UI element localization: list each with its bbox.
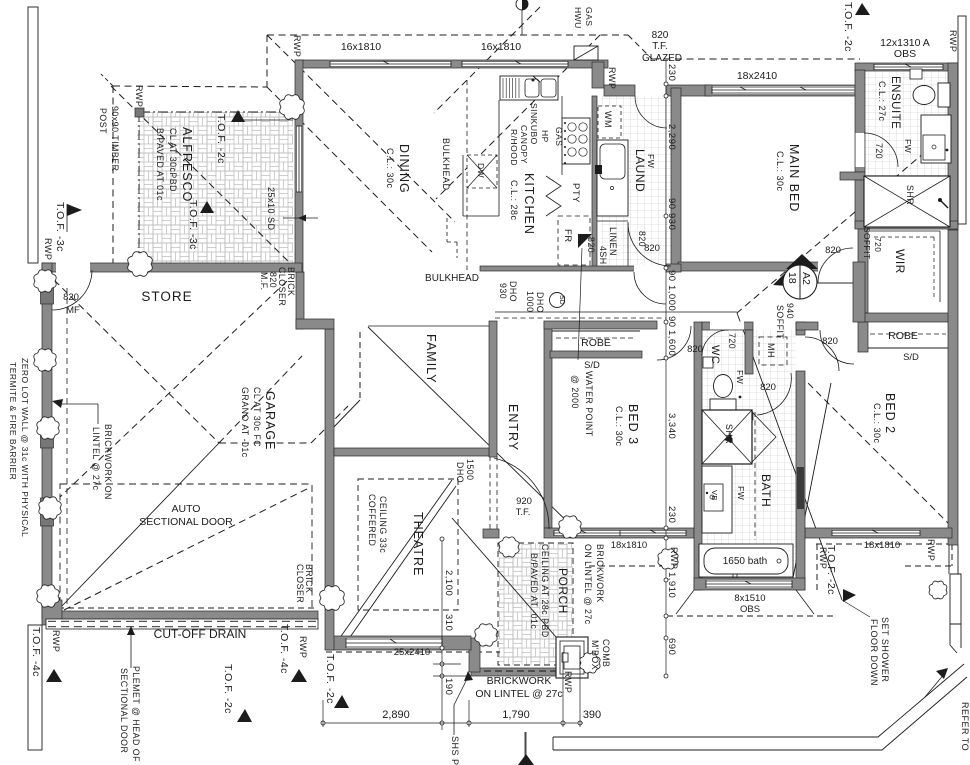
wall laundry north east part: [666, 85, 712, 96]
svg-text:C.L.: 30c: C.L.: 30c: [872, 403, 882, 444]
eave dashed alfresco west vertical: [112, 86, 114, 265]
shrub decoration 8: [320, 586, 345, 611]
east wall face lines below corner: [949, 545, 958, 574]
roof diagonal dining lower: [267, 87, 432, 252]
svg-text:FW: FW: [646, 154, 656, 168]
svg-text:1,790: 1,790: [502, 709, 530, 721]
dishwasher dw dashed box: [467, 155, 497, 188]
svg-text:POST: POST: [98, 108, 108, 134]
svg-text:SHS P: SHS P: [450, 736, 460, 765]
wall store north: [42, 263, 302, 272]
window 18x1810 bed3: [554, 530, 686, 537]
shrub decoration 3: [34, 270, 56, 292]
svg-text:90x90 TIMBER: 90x90 TIMBER: [110, 106, 120, 172]
svg-text:25x2410: 25x2410: [394, 647, 430, 658]
svg-text:BATH: BATH: [759, 474, 773, 507]
wc door opening: [710, 322, 744, 330]
a2 18 section marker: [773, 254, 853, 299]
svg-text:C.L.: 30c: C.L.: 30c: [775, 151, 785, 192]
eave dashed right of glazed door: [652, 58, 860, 60]
shrub decoration 7: [37, 585, 59, 607]
svg-text:RWP: RWP: [948, 30, 958, 52]
window 16x1810 west: [330, 61, 451, 68]
bath bump hip west: [676, 590, 694, 614]
svg-text:DHO: DHO: [508, 281, 518, 302]
svg-text:ENSUITE: ENSUITE: [889, 76, 901, 129]
svg-text:HP: HP: [540, 130, 550, 143]
wall wc bath west: [694, 322, 702, 590]
wall bath east bed2 west upper pier: [796, 322, 805, 335]
svg-text:3,340: 3,340: [666, 413, 677, 439]
svg-text:720: 720: [727, 333, 737, 349]
eave dashed bed2 lower: [905, 565, 952, 567]
svg-text:CL AT 30c FC: CL AT 30c FC: [252, 387, 262, 447]
svg-text:18x1810: 18x1810: [611, 540, 647, 551]
svg-text:820: 820: [822, 336, 838, 347]
svg-text:1650 bath: 1650 bath: [723, 556, 768, 567]
eave dashed bed2 sill: [816, 543, 952, 545]
garage sectional door dashed rect: [60, 484, 312, 614]
eave dashed top: [267, 34, 628, 36]
theatre coffered ceiling dashed rect: [358, 479, 458, 610]
svg-text:CEILING AT 28c PBD: CEILING AT 28c PBD: [540, 544, 550, 638]
wc wall niche: [703, 357, 713, 368]
tof triangle top right 2c: [855, 3, 870, 15]
svg-text:C.L.: 27c: C.L.: 27c: [877, 81, 887, 122]
svg-text:T.F.: T.F.: [652, 41, 668, 52]
window 12x1310 obs: [874, 64, 943, 71]
bulkhead dashed over entry: [495, 317, 666, 319]
wall robe bed3 north: [544, 321, 657, 329]
wall bed2 south: [805, 528, 952, 538]
alfresco beam dashdot west: [138, 112, 140, 264]
hall door opening kitchen south: [634, 266, 666, 272]
door arc laundry external: [635, 96, 667, 128]
kitchen sink unit: [500, 76, 558, 100]
shrub decoration 9: [475, 624, 497, 646]
dimension line bottom: [321, 652, 583, 727]
svg-text:SECTIONAL DOOR: SECTIONAL DOOR: [139, 516, 233, 528]
door arc hall kitchen south: [634, 272, 666, 304]
svg-text:R/HOOD: R/HOOD: [509, 129, 519, 166]
boundary strip right bed2: [950, 574, 961, 653]
svg-text:WIR: WIR: [893, 249, 907, 274]
tof triangle bath 2c: [843, 589, 856, 602]
svg-text:930: 930: [666, 213, 677, 230]
wall hall north east pier: [666, 264, 681, 272]
svg-text:T.O.F. -2c: T.O.F. -2c: [222, 664, 234, 714]
svg-text:VB: VB: [710, 490, 719, 501]
svg-text:CEILING 33c: CEILING 33c: [378, 496, 388, 553]
svg-text:310: 310: [443, 614, 454, 631]
window 18x2410: [712, 86, 855, 94]
svg-text:SHR: SHR: [905, 185, 915, 205]
roof valley porch: [452, 518, 556, 637]
ensuite vanity: [921, 115, 951, 163]
door arc wir robe hall: [820, 330, 854, 364]
svg-text:16x1810: 16x1810: [481, 41, 521, 53]
svg-text:T.O.F. -2c: T.O.F. -2c: [215, 114, 227, 164]
svg-text:FW: FW: [736, 486, 746, 500]
svg-text:1500: 1500: [465, 459, 475, 481]
svg-text:MAIN BED: MAIN BED: [787, 144, 801, 212]
wall wc east: [745, 330, 753, 374]
svg-text:T.O.F. -2c: T.O.F. -2c: [324, 654, 336, 704]
svg-text:OBS: OBS: [740, 604, 760, 615]
roof diagonal alfresco: [111, 86, 300, 273]
sd smoke detector symbol: [550, 293, 566, 308]
tof leader bath diagonal: [737, 313, 842, 600]
wall garage south: [42, 611, 318, 620]
wall porch south: [471, 668, 568, 676]
linen top line: [597, 220, 628, 222]
svg-text:B/PAVED AT -01c: B/PAVED AT -01c: [529, 553, 539, 629]
robe bed3 shelf: [552, 331, 640, 338]
alfresco paved floor hatch: [137, 112, 293, 264]
svg-text:LINEN: LINEN: [608, 227, 618, 256]
svg-text:GAS: GAS: [554, 127, 564, 146]
bath wc tiled floor: [702, 330, 796, 578]
svg-text:16x1810: 16x1810: [341, 41, 381, 53]
roof diagonal garage east: [311, 406, 348, 443]
wall robe bed3 south: [550, 351, 642, 358]
shrub decoration 6: [39, 497, 61, 519]
eave dashed porch to bath: [589, 565, 665, 567]
svg-text:90: 90: [666, 316, 677, 328]
svg-text:M.F.: M.F.: [259, 272, 269, 291]
svg-text:OBS: OBS: [894, 48, 916, 60]
door arc bed3: [657, 326, 691, 360]
svg-text:T.O.F. -2c: T.O.F. -2c: [842, 2, 854, 52]
tof triangle 2c theatre: [334, 695, 349, 708]
gas hwu symbol: [516, 0, 528, 35]
svg-text:BED 3: BED 3: [626, 404, 640, 445]
svg-text:WATER POINT: WATER POINT: [584, 371, 594, 437]
shrub decoration 2: [128, 252, 153, 277]
roof hip family west: [330, 400, 360, 431]
svg-text:T.O.F. -3c: T.O.F. -3c: [187, 200, 199, 250]
boundary arrow bottom right: [925, 668, 948, 697]
site boundary bottom outer: [553, 677, 967, 750]
svg-text:BRICKWORK: BRICKWORK: [595, 544, 605, 603]
svg-text:GARAGE: GARAGE: [263, 391, 277, 451]
boundary dashed left: [66, 288, 68, 606]
svg-text:DINING: DINING: [397, 144, 411, 194]
wall kitchen east: [592, 96, 597, 267]
svg-text:18: 18: [786, 272, 798, 284]
kitchen bench edge: [463, 100, 499, 216]
window 18x1810 bed2: [832, 530, 920, 537]
wall wir west: [858, 229, 868, 313]
bath east wall dark band: [797, 467, 804, 509]
main bed south door opening: [818, 262, 853, 272]
svg-text:820: 820: [644, 243, 660, 254]
wall theatre north: [334, 448, 489, 456]
garage door cross diagonal: [64, 487, 311, 610]
svg-text:1,000: 1,000: [666, 285, 677, 311]
bath tub 1650: [699, 544, 793, 578]
svg-text:ZERO LOT WALL @ 31c WITH PHYSI: ZERO LOT WALL @ 31c WITH PHYSICAL: [20, 358, 30, 537]
svg-text:SECTIONAL DOOR: SECTIONAL DOOR: [119, 668, 129, 753]
ensuite tiled floor: [865, 71, 948, 227]
dimension line theatre column: [433, 537, 466, 730]
svg-text:STORE: STORE: [141, 289, 192, 304]
svg-text:B/PAVED AT 01c: B/PAVED AT 01c: [155, 128, 165, 201]
svg-text:2,290: 2,290: [666, 124, 677, 150]
svg-text:230: 230: [666, 64, 677, 81]
roof diagonal garage: [46, 272, 219, 443]
roof diagonal garage ne branch: [219, 356, 302, 443]
alfresco tof line: [238, 119, 293, 121]
fr black flag symbol: [578, 234, 592, 248]
svg-text:230: 230: [666, 506, 677, 523]
svg-text:SOFFIT: SOFFIT: [862, 227, 872, 260]
svg-text:CL AT 30cPBD: CL AT 30cPBD: [168, 128, 178, 192]
leader tof porch line: [524, 732, 526, 758]
svg-text:T.O.F. -4c: T.O.F. -4c: [30, 627, 42, 677]
svg-text:SHR: SHR: [724, 424, 734, 444]
leader set shower: [842, 600, 870, 617]
svg-text:4SH: 4SH: [598, 246, 608, 265]
mh dashed box: [759, 337, 787, 365]
window 25x2410 theatre: [346, 638, 442, 648]
svg-text:LAUND: LAUND: [633, 149, 647, 192]
sd arrow 25x10: [283, 215, 318, 222]
svg-text:FW: FW: [735, 370, 745, 384]
family ridge dashed vertical: [359, 332, 361, 399]
alfresco beam dashdot top: [140, 111, 293, 113]
svg-text:BULKHEAD: BULKHEAD: [441, 138, 451, 191]
ensuite door opening: [856, 133, 865, 167]
wall main bed south: [678, 262, 853, 271]
svg-text:GRANO AT -01c: GRANO AT -01c: [240, 387, 250, 458]
door leaf main bed: [818, 282, 853, 284]
door arc ensuite: [864, 133, 898, 167]
svg-text:820: 820: [687, 344, 703, 355]
svg-text:SINKUBO: SINKUBO: [529, 103, 539, 145]
wall theatre south: [326, 636, 471, 650]
svg-text:RWP: RWP: [607, 67, 617, 89]
svg-text:BED 2: BED 2: [883, 393, 897, 434]
tof triangle garage left 4c: [46, 669, 62, 682]
eave dashed garage sill: [48, 607, 318, 609]
cooktop stove: [562, 118, 590, 164]
site boundary bottom: [553, 664, 964, 737]
alfresco post pier on store wall: [134, 262, 148, 273]
eave corner stub alfresco: [101, 74, 113, 86]
svg-text:FW: FW: [903, 139, 913, 153]
svg-text:WM: WM: [603, 111, 613, 128]
eave dashed bed2 corner v: [951, 544, 953, 566]
svg-text:COFFERED: COFFERED: [367, 494, 377, 546]
wall kitchen east jog: [592, 62, 604, 88]
svg-text:920: 920: [516, 496, 532, 507]
door arc entry porch: [494, 458, 549, 529]
store door opening: [56, 263, 90, 273]
eave dashed alfresco west vertical upper: [266, 35, 268, 87]
rwp box on dining wall: [574, 46, 598, 60]
leader brickwork garage: [52, 399, 98, 424]
kitchen bulkhead dashed vertical upper: [466, 80, 468, 157]
svg-text:@ 2000: @ 2000: [570, 375, 580, 409]
robe bed2 shelf: [868, 334, 948, 348]
ensuite shower: [864, 176, 950, 227]
svg-text:820: 820: [586, 237, 596, 253]
bulkhead line over entry: [495, 311, 737, 313]
svg-text:BRICKWORK ON: BRICKWORK ON: [103, 424, 113, 500]
leader shs post: [454, 671, 473, 735]
svg-text:DHO: DHO: [455, 462, 465, 483]
roof diagonal over ensuite: [737, 122, 960, 313]
theatre opening dashed east: [496, 456, 498, 536]
wall zero lot boundary west: [42, 263, 52, 618]
svg-text:RWP: RWP: [43, 238, 53, 260]
svg-text:TERMITE & FIRE BARRIER: TERMITE & FIRE BARRIER: [8, 362, 18, 480]
svg-text:ROBE: ROBE: [888, 330, 918, 342]
wall wc north: [702, 322, 753, 330]
site boundary end cap: [552, 737, 554, 750]
alfresco post nw: [135, 108, 144, 117]
boundary rectangle top right: [958, 16, 966, 224]
svg-text:T.F.: T.F.: [516, 507, 531, 518]
svg-text:S/D: S/D: [584, 360, 600, 371]
ensuite niche: [910, 69, 922, 79]
svg-text:LINTEL @ 27c: LINTEL @ 27c: [91, 427, 101, 491]
svg-text:18x1810: 18x1810: [864, 540, 900, 551]
zero lot wall pilaster c: [41, 278, 54, 304]
svg-text:1,910: 1,910: [666, 572, 677, 598]
svg-text:RWP: RWP: [298, 636, 308, 658]
svg-text:S/D: S/D: [903, 352, 919, 363]
wall bed3 south: [544, 528, 694, 538]
ensuite toilet: [913, 83, 950, 107]
dimension line right column: [664, 60, 668, 678]
roof diagonal dining upper: [267, 35, 455, 222]
svg-text:2,890: 2,890: [382, 709, 410, 721]
svg-text:T.O.F. -4c: T.O.F. -4c: [278, 624, 290, 674]
svg-text:KITCHEN: KITCHEN: [522, 173, 536, 235]
garage south wall corner block: [42, 600, 62, 625]
svg-text:C.L.: 30c: C.L.: 30c: [385, 148, 395, 189]
bulkhead step dashes family: [447, 218, 457, 258]
wall bath east bed2 west: [796, 371, 805, 590]
svg-text:RWP: RWP: [51, 630, 61, 652]
svg-text:MH: MH: [766, 343, 776, 358]
svg-text:DW: DW: [476, 163, 486, 178]
svg-text:BULKHEAD: BULKHEAD: [425, 273, 479, 284]
porch wall lintel dashed: [473, 670, 567, 672]
svg-text:2,100: 2,100: [443, 570, 454, 596]
wall dining west: [295, 60, 303, 272]
shrub decoration 14: [580, 653, 600, 673]
window 25x10 sd alfresco: [296, 126, 303, 192]
fr leader line to sd: [578, 248, 582, 360]
svg-text:RWP: RWP: [669, 547, 679, 569]
shrub decoration 10: [559, 516, 581, 538]
eave dashed alfresco top: [113, 86, 267, 87]
svg-text:C.L.: 30c: C.L.: 30c: [614, 406, 624, 447]
eave dashed top corner diagonal: [628, 35, 652, 59]
cut-off drain strip: [46, 619, 318, 629]
wall dining north: [296, 60, 608, 68]
roof diagonal garage cross: [60, 281, 287, 497]
theatre opening dashed west: [489, 456, 491, 536]
door arc wc: [702, 330, 728, 356]
shrub decoration 13: [929, 581, 947, 599]
fridge fr dashed box: [558, 216, 590, 265]
svg-text:820: 820: [760, 382, 776, 393]
svg-text:1,600: 1,600: [666, 330, 677, 356]
wall main bed east hall: [853, 262, 865, 322]
svg-text:RWP: RWP: [563, 671, 573, 693]
roof ridge garage dashed: [219, 442, 311, 444]
svg-text:720: 720: [873, 237, 883, 252]
svg-text:SD: SD: [558, 295, 565, 305]
wall wc east stub: [745, 412, 753, 420]
eave dashed under bath bumpout: [667, 615, 835, 617]
svg-text:AUTO: AUTO: [172, 503, 201, 515]
roof valley family to entry porch: [368, 327, 584, 538]
door arc bath: [757, 373, 791, 415]
wall main bed west: [671, 88, 681, 268]
svg-text:CANOPY: CANOPY: [519, 125, 529, 164]
svg-text:MF: MF: [66, 305, 80, 316]
svg-text:ALFRESCO: ALFRESCO: [180, 127, 194, 202]
wall theatre west: [325, 329, 334, 650]
bath vanity: [702, 466, 732, 533]
svg-text:930: 930: [498, 283, 508, 299]
neighbour wall rectangle bottom left: [28, 625, 42, 750]
theatre hip line b: [341, 486, 456, 650]
svg-text:SOFFIT: SOFFIT: [775, 305, 785, 339]
tof flag pole left 3c: [66, 204, 68, 232]
shrub decoration 12: [658, 549, 678, 569]
wall garage step vertical: [296, 272, 304, 329]
porch eave dashed rect: [498, 543, 573, 665]
shrub decoration 5: [37, 417, 59, 439]
svg-text:ROBE: ROBE: [581, 337, 611, 349]
wall east exterior upper: [948, 63, 958, 230]
wall ensuite north: [855, 63, 958, 71]
svg-text:M'BOX: M'BOX: [590, 640, 600, 670]
shrub decoration 4: [34, 349, 56, 371]
tof leader bath diagonal b: [792, 383, 831, 583]
family ridge line: [368, 325, 492, 327]
door arc linen: [628, 223, 671, 266]
svg-text:GLAZED: GLAZED: [642, 53, 682, 64]
svg-text:CUT-OFF DRAIN: CUT-OFF DRAIN: [154, 627, 247, 641]
tof leader bottom porch: [525, 732, 527, 757]
svg-text:690: 690: [666, 638, 677, 655]
wall ensuite shower divider: [840, 172, 865, 180]
wir shelf lines: [870, 231, 940, 302]
wall garage step horizontal: [296, 319, 334, 329]
roof diagonal bed2: [800, 375, 952, 527]
svg-text:ON LINTEL @ 27c: ON LINTEL @ 27c: [583, 544, 593, 625]
svg-text:940: 940: [785, 303, 795, 319]
wc toilet: [710, 375, 741, 413]
theatre hip line a: [334, 480, 452, 646]
svg-text:90: 90: [666, 270, 677, 282]
wall shower south: [855, 221, 958, 229]
wall hall pier west of robe door: [796, 322, 818, 330]
shrub decoration 11: [499, 537, 519, 557]
shrub decoration 1: [280, 95, 305, 120]
wall east exterior lower: [948, 230, 958, 545]
svg-text:8x1510: 8x1510: [734, 593, 765, 604]
svg-text:T.O.F. -3c: T.O.F. -3c: [54, 202, 66, 252]
svg-text:RWP: RWP: [926, 539, 936, 561]
